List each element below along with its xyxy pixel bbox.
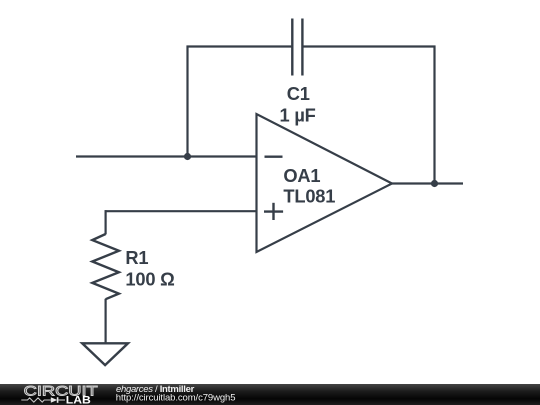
wire resistor top stub xyxy=(104,210,106,234)
svg-text:LAB: LAB xyxy=(66,394,91,405)
node junction dot (inverting input) xyxy=(184,153,191,160)
svg-text:100 Ω: 100 Ω xyxy=(125,269,174,290)
svg-text:http://circuitlab.com/c79wgh5: http://circuitlab.com/c79wgh5 xyxy=(116,393,236,404)
wire non-inverting-input rail xyxy=(105,210,257,212)
logo waveform zigzag xyxy=(21,398,51,402)
wire inverting-input rail xyxy=(76,155,257,157)
ground xyxy=(82,343,128,365)
logo diode symbol xyxy=(51,397,58,403)
wire top-left horizontal xyxy=(187,45,293,47)
resistor R1 zigzag xyxy=(92,234,119,299)
wire top-right horizontal xyxy=(302,45,435,47)
capacitor C1 xyxy=(292,19,302,76)
wire right vertical xyxy=(433,46,435,184)
svg-text:1 µF: 1 µF xyxy=(280,105,316,126)
op-amp plus input symbol xyxy=(264,203,283,220)
svg-text:TL081: TL081 xyxy=(283,186,335,207)
wire output xyxy=(392,182,463,184)
svg-text:R1: R1 xyxy=(125,247,148,268)
op-amp minus input symbol xyxy=(265,155,283,157)
svg-text:C1: C1 xyxy=(287,83,310,104)
node junction dot (output) xyxy=(431,180,438,187)
svg-text:OA1: OA1 xyxy=(283,165,320,186)
wire resistor bottom stub xyxy=(104,299,106,344)
wire feedback left vertical xyxy=(186,46,188,158)
op-amp U1 OA1 triangle xyxy=(257,114,393,252)
